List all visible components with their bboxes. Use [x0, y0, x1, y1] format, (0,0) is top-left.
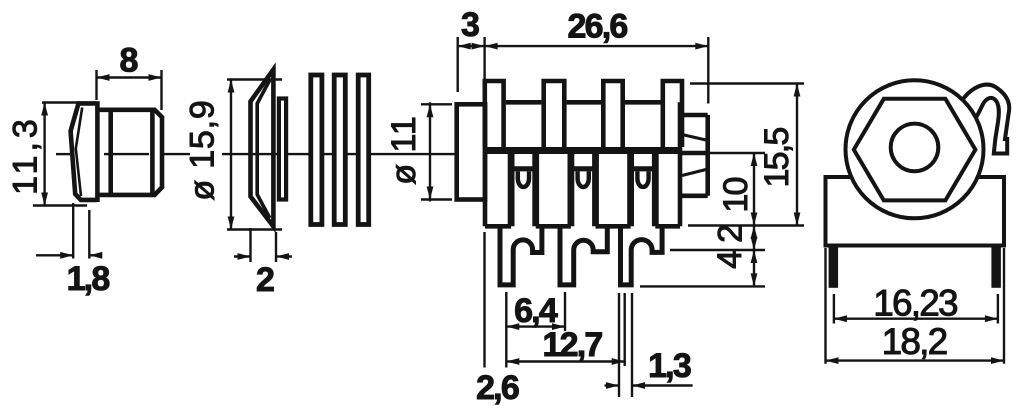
body mid band	[483, 147, 682, 154]
dimension 2 right	[712, 225, 758, 250]
solder lug 1	[500, 226, 542, 285]
switch box diagonal lower	[682, 170, 706, 176]
washer inner line	[257, 80, 270, 218]
svg-text:4: 4	[711, 251, 749, 269]
svg-text:16,23: 16,23	[873, 283, 957, 324]
front view leg left	[829, 244, 839, 288]
front view frame	[826, 177, 1005, 246]
contact tower 3	[631, 152, 656, 226]
switch box right	[680, 115, 708, 196]
contact tower 2	[571, 152, 596, 226]
svg-text:26,6: 26,6	[568, 8, 628, 46]
dimension 2 washer	[234, 228, 292, 299]
keyhole 1	[518, 171, 529, 187]
svg-text:1,3: 1,3	[648, 347, 691, 385]
center line washer to main view	[222, 153, 457, 155]
body right edge	[678, 102, 683, 226]
svg-text:11,3: 11,3	[7, 115, 45, 195]
dimension 15,5	[758, 84, 800, 226]
dimension diameter 11	[385, 102, 452, 201]
switch box diagonal upper	[682, 135, 706, 141]
svg-text:18,2: 18,2	[882, 321, 947, 362]
contact tower 1	[511, 152, 536, 226]
svg-text:2,6: 2,6	[476, 369, 519, 406]
svg-text:ø 11: ø 11	[385, 115, 423, 185]
nut flange crease	[76, 108, 82, 197]
tab 1	[485, 81, 504, 147]
washer boss	[279, 99, 286, 200]
body top edge segments	[506, 100, 661, 105]
keyhole 3	[637, 171, 648, 187]
dimension 10	[717, 153, 757, 286]
solder lug 3	[621, 226, 663, 285]
svg-text:8: 8	[119, 42, 137, 80]
svg-text:3: 3	[461, 6, 479, 44]
front view leg right	[991, 244, 1001, 288]
dimension 11,3	[7, 103, 88, 206]
washer outline	[251, 70, 274, 227]
dimension 12,7	[485, 232, 625, 368]
right side extension lines	[640, 84, 804, 287]
washer stack bar 3	[358, 75, 369, 225]
bushing block	[457, 104, 485, 199]
dimension 6,4	[506, 292, 565, 368]
front view hexagon	[854, 99, 976, 201]
dimension 8	[97, 42, 162, 111]
svg-text:10: 10	[717, 178, 755, 213]
body left edge	[483, 102, 488, 226]
dimension 3 and 26,6	[458, 6, 709, 104]
front view inner circle	[891, 124, 939, 172]
svg-text:2: 2	[256, 261, 274, 299]
svg-text:2: 2	[712, 225, 750, 243]
nut body	[97, 101, 162, 202]
dimension diameter 15,9	[184, 80, 283, 230]
svg-text:ø 15,9: ø 15,9	[184, 99, 222, 200]
svg-text:6,4: 6,4	[514, 292, 558, 330]
dimension 4 right	[711, 250, 757, 286]
washer stack bar 1	[311, 75, 322, 225]
svg-text:15,5: 15,5	[758, 128, 796, 188]
tab 4	[663, 81, 682, 147]
keyhole 2	[578, 171, 589, 187]
svg-text:12,7: 12,7	[543, 326, 603, 364]
washer stack bar 2	[334, 75, 345, 225]
dimension 16,23	[834, 283, 998, 324]
dimension 18,2	[826, 248, 1005, 364]
svg-text:1,8: 1,8	[67, 260, 110, 298]
dimension 1,8	[36, 203, 109, 298]
body bottom edge segments	[485, 224, 680, 229]
front view circle	[846, 80, 984, 218]
solder lug 2	[560, 226, 607, 285]
dimension 1,3	[605, 293, 693, 397]
front view sleeve tab	[961, 85, 1009, 154]
tab 3	[603, 81, 622, 147]
center line nut view	[56, 153, 190, 155]
tab 2	[544, 81, 565, 147]
nut flange outline	[71, 103, 97, 199]
